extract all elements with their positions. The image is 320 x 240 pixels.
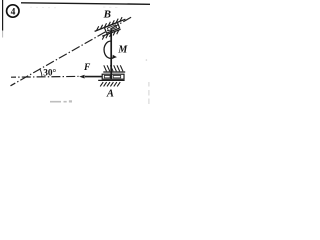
upper horizontal guide surface at A [103, 71, 125, 73]
svg-text:F: F [83, 63, 91, 73]
circled figure number 4 [7, 5, 19, 18]
slider block at B [104, 22, 119, 33]
slider block at A [102, 74, 124, 79]
lower horizontal guide surface at A (ground) [98, 79, 124, 81]
hatching below B lower guide [102, 30, 119, 40]
faint speck right middle [146, 59, 148, 61]
left page border line [2, 0, 4, 31]
hatching above B guide [97, 17, 123, 31]
lower inclined guide surface at B [102, 29, 120, 36]
horizontal centerline (dash-dot) [11, 75, 79, 78]
faint print-through smudge bottom [50, 100, 72, 102]
svg-text:4: 4 [11, 8, 16, 18]
svg-text:30°: 30° [43, 68, 56, 79]
upper inclined guide surface at B [95, 19, 126, 31]
force F arrowhead [79, 75, 84, 79]
moment M arrowhead [112, 55, 117, 59]
svg-text:M: M [117, 44, 128, 55]
rod AB [110, 30, 112, 80]
force F arrow line [85, 76, 103, 78]
hatching above A upper guide [104, 65, 123, 71]
moment M arc on rod [104, 41, 115, 58]
hatching below ground at A [100, 82, 120, 86]
angle arc at vertex [40, 69, 42, 77]
top page border line [21, 3, 150, 5]
faint dotted noise near top [30, 7, 117, 9]
svg-text:B: B [103, 8, 111, 20]
faint right page edge [148, 82, 150, 104]
svg-text:A: A [106, 88, 114, 99]
inclined centerline at 30 deg through B (dash-dot) [11, 16, 134, 86]
